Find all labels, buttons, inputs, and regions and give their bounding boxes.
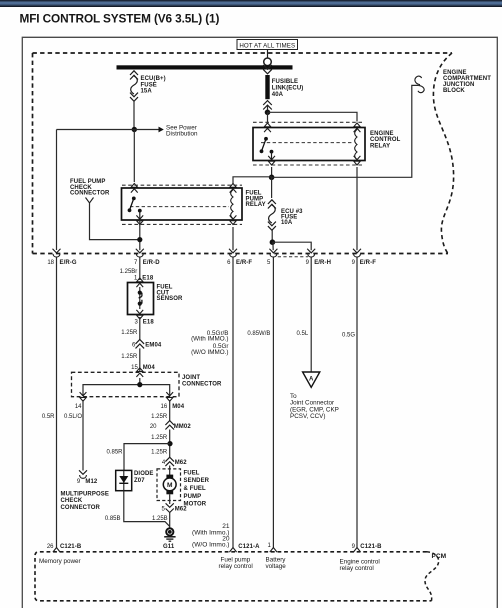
label MULTIPURPOSE CHECK CONNECTOR: [61, 491, 109, 511]
fuel pump relay box: [122, 188, 243, 220]
connector pin 7 E/R-D: [134, 249, 160, 267]
fuse ECU(B+) 15A: [130, 71, 166, 102]
node3 check connector join: [137, 237, 142, 242]
svg-text:E/R-D: E/R-D: [143, 260, 160, 266]
svg-text:1.25Br: 1.25Br: [120, 269, 138, 275]
label JOINT CONNECTOR: [182, 375, 222, 387]
svg-text:Distribution: Distribution: [166, 131, 198, 138]
svg-text:PCM: PCM: [432, 553, 447, 560]
dashed jumper pin5 to E/R-H: [278, 256, 308, 258]
see power distribution arrow: [159, 124, 198, 137]
svg-text:E/R-F: E/R-F: [360, 260, 376, 266]
svg-text:Memory power: Memory power: [39, 558, 81, 565]
svg-text:DIODE: DIODE: [134, 471, 154, 477]
svg-text:14: 14: [75, 404, 82, 410]
wire fuse to node4: [271, 230, 273, 242]
engine control relay internal dashed link: [261, 142, 353, 144]
joint connector dashed box: [72, 372, 180, 396]
svg-text:CONNECTOR: CONNECTOR: [70, 191, 110, 197]
svg-text:1.25R: 1.25R: [121, 330, 138, 336]
dashed line below fuel pump relay: [122, 223, 242, 225]
fuel pump relay pin arrow in: [131, 184, 138, 193]
label FUEL CUT SENSOR: [157, 285, 184, 303]
svg-text:3: 3: [134, 320, 138, 326]
svg-text:SENSOR: SENSOR: [157, 296, 184, 302]
fuel pump relay coil bottom arrow: [230, 215, 237, 224]
PCM wavy right edge: [425, 552, 439, 601]
svg-text:MFI CONTROL SYSTEM (V6 3.5L) (: MFI CONTROL SYSTEM (V6 3.5L) (1): [20, 11, 220, 25]
wire fuse node down to fuel pump relay: [133, 130, 135, 183]
label FUEL PUMP CHECK CONNECTOR: [70, 179, 110, 197]
svg-text:HOT AT ALL TIMES: HOT AT ALL TIMES: [239, 42, 295, 49]
joint connector out arrow 14: [75, 392, 87, 410]
engine control relay switch: [260, 137, 274, 160]
connector pin 9 E/R-H: [306, 249, 331, 267]
svg-text:18: 18: [47, 260, 54, 266]
svg-text:9: 9: [352, 544, 356, 550]
fuel pump relay switch: [128, 197, 142, 220]
svg-text:M: M: [167, 482, 173, 489]
note To Joint Connector: [290, 393, 339, 420]
fusible link(ECU) 40A: [263, 65, 303, 110]
svg-text:FUSE: FUSE: [141, 82, 157, 88]
wire relay switch out to node2: [271, 167, 273, 177]
power feed circle: [264, 58, 272, 66]
engine control relay pin arrow right: [354, 123, 361, 132]
svg-text:ENGINE: ENGINE: [370, 131, 394, 137]
wire stub from HOT box to circle: [267, 50, 269, 59]
svg-text:RELAY: RELAY: [370, 143, 390, 149]
wire node2 to junction block right: [272, 85, 419, 177]
svg-text:1.25R: 1.25R: [121, 354, 138, 360]
wire 0.5L to joint connector A: [297, 258, 312, 373]
fuel cut sensor internal switch: [138, 287, 142, 309]
svg-text:E/R-G: E/R-G: [60, 260, 77, 266]
svg-text:26: 26: [47, 544, 54, 550]
fuel pump relay coil: [231, 190, 233, 219]
node5 diode branch: [167, 441, 172, 446]
svg-text:M04: M04: [143, 365, 156, 371]
svg-text:1.25R: 1.25R: [151, 435, 168, 441]
HOT AT ALL TIMES box: [237, 40, 298, 50]
fuel pump relay coil pin arrow in: [230, 184, 237, 193]
svg-text:1: 1: [268, 543, 272, 549]
wire break hook symbol: [415, 76, 424, 93]
wire relay out to node3: [139, 220, 141, 250]
PCM pin 26 C121-B: [47, 544, 82, 552]
svg-text:CONTROL: CONTROL: [370, 137, 401, 143]
engine control relay coil: [355, 130, 357, 160]
PCM pin 1: [268, 543, 277, 552]
PCM dashed box: [35, 552, 432, 601]
wire 1.25R to node5: [151, 430, 170, 458]
svg-text:16: 16: [161, 404, 168, 410]
node4: [270, 239, 276, 245]
svg-text:voltage: voltage: [266, 563, 287, 570]
label Battery voltage: [266, 556, 287, 570]
engine control relay out arrow right: [354, 156, 361, 165]
wire 0.5G engine control relay control: [342, 258, 357, 548]
wire node4 to pin 5: [272, 242, 274, 250]
svg-text:CHECK: CHECK: [61, 498, 83, 504]
svg-text:PCSV, CCV): PCSV, CCV): [290, 413, 325, 420]
svg-text:(With IMMO.): (With IMMO.): [191, 336, 228, 343]
svg-text:FUSIBLE: FUSIBLE: [272, 79, 298, 85]
svg-text:0.5L/O: 0.5L/O: [64, 414, 82, 420]
wire 0.85W/B battery voltage: [247, 258, 273, 548]
svg-text:0.85W/B: 0.85W/B: [247, 331, 270, 337]
browser top chrome bar: [0, 0, 502, 7]
label ENGINE COMPARTMENT JUNCTION BLOCK: [443, 70, 491, 94]
wire 1.25R: [121, 317, 140, 340]
engine control relay pin arrow left: [264, 123, 271, 132]
junction block wavy right boundary: [433, 53, 453, 254]
label FUEL PUMP RELAY: [246, 191, 266, 209]
fuel pump check connector stub: [86, 198, 138, 240]
svg-text:E/R-H: E/R-H: [314, 260, 331, 266]
svg-text:E/R-F: E/R-F: [236, 260, 252, 266]
junction block dashed boundary left: [32, 53, 34, 254]
svg-text:& FUEL: & FUEL: [184, 486, 206, 492]
svg-text:BLOCK: BLOCK: [443, 88, 465, 94]
svg-text:A: A: [309, 376, 314, 382]
label Engine control relay control: [340, 558, 380, 572]
svg-text:C121-B: C121-B: [360, 544, 382, 550]
engine control relay box U1: [253, 128, 365, 161]
svg-text:5: 5: [267, 260, 271, 266]
svg-text:0.5R: 0.5R: [42, 414, 55, 420]
svg-text:0.5L: 0.5L: [297, 331, 309, 337]
svg-text:9: 9: [77, 479, 81, 485]
label Fuel pump relay control: [219, 556, 253, 570]
E/R connector dashed line: [33, 253, 449, 255]
connector 20 MM02: [150, 421, 192, 430]
svg-text:M04: M04: [172, 404, 185, 410]
label 21 With Immo 20 W/O Immo: [192, 523, 230, 548]
svg-text:20: 20: [150, 424, 157, 430]
node under fusible link: [265, 110, 271, 116]
svg-text:PUMP: PUMP: [184, 494, 202, 500]
svg-text:G11: G11: [163, 544, 175, 550]
junction block dashed boundary top: [33, 52, 453, 54]
svg-text:40A: 40A: [272, 92, 284, 98]
svg-text:MOTOR: MOTOR: [184, 502, 207, 508]
wire 1.25Br to fuel cut sensor: [120, 258, 140, 281]
fuse ECU #3 10A: [268, 177, 303, 230]
svg-text:relay control: relay control: [340, 565, 374, 572]
svg-text:M62: M62: [175, 507, 188, 513]
svg-text:0.85B: 0.85B: [105, 516, 121, 522]
connector 6 EM04: [132, 340, 162, 349]
svg-text:EM04: EM04: [145, 342, 162, 348]
joint connector out arrow 16 M04: [161, 392, 185, 410]
wire 1.25B to ground: [152, 513, 170, 528]
svg-text:0.85R: 0.85R: [106, 450, 123, 456]
engine control relay out arrow left: [268, 156, 275, 165]
dashed line above fuel pump relay: [122, 184, 242, 186]
svg-text:9: 9: [306, 260, 310, 266]
svg-text:LINK(ECU): LINK(ECU): [272, 86, 304, 92]
svg-text:C121-B: C121-B: [60, 544, 82, 550]
svg-text:0.5G: 0.5G: [342, 332, 355, 338]
svg-text:6: 6: [227, 260, 231, 266]
connector pin 18 E/R-G: [47, 249, 77, 267]
wire node down to relay left pin: [267, 112, 269, 122]
svg-text:7: 7: [134, 260, 138, 266]
connector pin 1 E18: [134, 276, 154, 288]
connector pin 9 E/R-F right: [352, 249, 377, 267]
connector 9 M12 stub: [77, 470, 98, 485]
fuel cut sensor box: [128, 283, 154, 315]
connector 5 M62: [162, 503, 188, 512]
svg-text:E18: E18: [143, 320, 155, 326]
svg-text:FUEL: FUEL: [184, 470, 200, 476]
joint connector bus: [83, 378, 170, 396]
node2 below relay: [269, 175, 275, 181]
wire distribution horizontal: [57, 129, 159, 131]
connector 4 M62: [162, 457, 187, 466]
PCM pin C121-A: [229, 544, 260, 552]
label FUEL SENDER & FUEL PUMP MOTOR: [184, 470, 210, 507]
svg-text:MM02: MM02: [174, 424, 192, 430]
svg-text:CONNECTOR: CONNECTOR: [61, 505, 101, 511]
svg-text:(W/O Immo.): (W/O Immo.): [192, 542, 229, 549]
wire node4 to E/R-H: [272, 242, 311, 250]
label ENGINE CONTROL RELAY: [370, 131, 401, 150]
svg-text:JOINT: JOINT: [182, 375, 200, 381]
svg-text:15A: 15A: [141, 89, 153, 95]
svg-text:C121-A: C121-A: [238, 544, 260, 550]
svg-text:SENDER: SENDER: [184, 478, 210, 484]
connector pin 6 E/R-F: [227, 249, 252, 267]
connector pin 3 E18: [134, 310, 154, 326]
fuel pump relay out arrow: [136, 215, 143, 224]
wire 1.25R to M04: [121, 348, 140, 371]
dashed line above engine control relay: [253, 121, 363, 123]
svg-text:1.25R: 1.25R: [151, 414, 168, 420]
wire 0.85B diode return: [105, 491, 170, 527]
wire node2 to fuel pump relay coil: [233, 177, 272, 184]
fuel pump motor M: [163, 466, 176, 505]
svg-text:(W/O IMMO.): (W/O IMMO.): [191, 349, 228, 356]
wire E/R-G drop: [56, 130, 58, 251]
wire 1.25R to MM02: [151, 400, 170, 421]
connector pin 5: [267, 249, 277, 267]
PCM pin 9 C121-B: [352, 544, 382, 552]
joint connector A triangle: [303, 372, 320, 387]
wire relay coil down to E/R-F: [356, 167, 358, 250]
svg-text:ECU(B+): ECU(B+): [141, 76, 166, 82]
diode Z07: [116, 470, 154, 490]
wire link to node: [267, 106, 269, 112]
svg-text:5: 5: [162, 507, 166, 513]
fuel sender dashed box: [157, 469, 181, 501]
svg-text:10A: 10A: [281, 220, 293, 226]
wire 0.5Gr/B fuel pump relay control: [191, 258, 233, 548]
wire node to relay right pin: [268, 112, 358, 121]
svg-text:Z07: Z07: [134, 478, 145, 484]
svg-text:CONNECTOR: CONNECTOR: [182, 381, 222, 387]
svg-text:1.25R: 1.25R: [151, 450, 168, 456]
wire 0.5R memory power: [42, 258, 57, 548]
bus bar HOT AT ALL TIMES: [117, 65, 293, 69]
wire 0.5L/O to M12: [64, 400, 83, 471]
wire fuse to distribution node: [133, 101, 135, 130]
fuel pump relay internal dashed link: [130, 206, 229, 208]
node at fuse output: [132, 127, 137, 132]
svg-text:MULTIPURPOSE: MULTIPURPOSE: [61, 491, 109, 497]
svg-text:M12: M12: [85, 479, 98, 485]
ground G11: [163, 528, 176, 550]
dashed line below engine control relay: [253, 164, 363, 166]
wire branch to diode: [106, 444, 170, 471]
svg-text:9: 9: [352, 260, 356, 266]
wire coil to E/R-F: [232, 227, 234, 250]
connector pin 15 M04: [131, 365, 155, 377]
svg-text:E18: E18: [142, 276, 154, 282]
svg-text:relay control: relay control: [219, 563, 253, 570]
svg-text:RELAY: RELAY: [246, 202, 266, 208]
svg-text:M62: M62: [175, 460, 188, 466]
